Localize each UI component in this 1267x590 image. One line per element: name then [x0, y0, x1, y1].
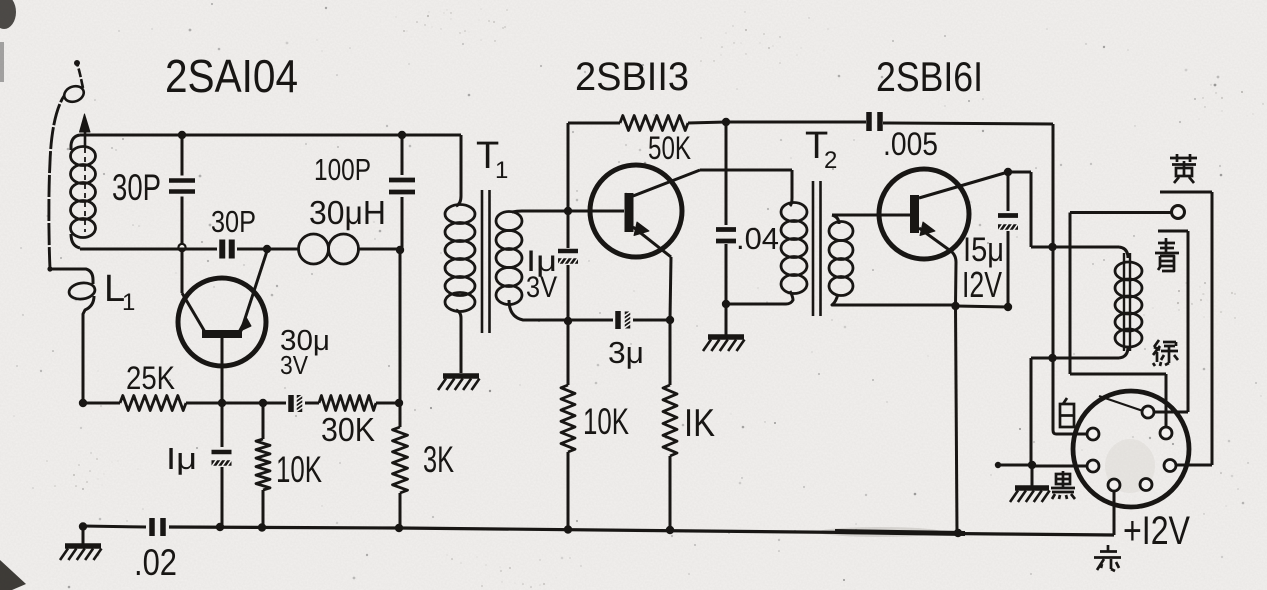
L1 tuning arrow: [84, 148, 86, 232]
capacitor 15u: [1007, 172, 1010, 211]
resistor 25K: [120, 396, 186, 411]
label kanji yellow: [1176, 154, 1179, 162]
svg-text:IK: IK: [684, 402, 715, 445]
T2 core: [812, 181, 815, 316]
node: [954, 529, 962, 537]
svg-text:.04: .04: [736, 221, 779, 256]
wire: yellow terminal: [1172, 206, 1185, 219]
node: [216, 523, 224, 531]
capacitor 1u: [221, 403, 224, 447]
svg-text:2SBII3: 2SBII3: [575, 55, 689, 99]
resistor 1K: [669, 320, 672, 385]
node: [395, 524, 403, 532]
transistor Q1: [178, 278, 266, 366]
capacitor .005: [866, 112, 872, 131]
node: [395, 399, 403, 407]
node: [398, 131, 406, 139]
node: [564, 317, 572, 325]
node: [258, 523, 266, 531]
antenna: [49, 96, 64, 269]
capacitor 30u electrolytic: [288, 395, 294, 412]
node: [722, 118, 730, 126]
svg-text:30K: 30K: [321, 411, 375, 448]
transistor Q3: [879, 169, 969, 259]
resistor 30K: [319, 396, 376, 411]
node: [1028, 461, 1036, 469]
node: [178, 131, 186, 139]
capacitor .04: [725, 122, 728, 225]
svg-text:3μ: 3μ: [608, 335, 644, 370]
label kanji white: [1063, 398, 1067, 404]
svg-text:25K: 25K: [126, 360, 175, 396]
wire: rail to oscillator: [80, 248, 217, 251]
capacitor .02: [149, 518, 155, 536]
T1 core: [481, 190, 484, 333]
svg-text:50K: 50K: [648, 130, 691, 166]
svg-text:.005: .005: [883, 126, 938, 162]
node: [666, 526, 674, 534]
label kanji blue: [1165, 238, 1168, 252]
node: [396, 246, 404, 254]
ground .04: [725, 304, 728, 335]
inductor 30uH: [299, 234, 329, 264]
svg-text:1: 1: [495, 157, 508, 184]
stub (black lead): [997, 464, 1031, 467]
node: [79, 399, 87, 407]
node: [259, 399, 267, 407]
node: [1004, 168, 1012, 176]
label kanji black: [1056, 474, 1070, 484]
capacitor 3u: [615, 311, 621, 329]
svg-text:3V: 3V: [280, 350, 309, 380]
antenna coupling loop wire: [50, 269, 93, 284]
wire: bias rail: [83, 402, 120, 405]
pin nc: [1140, 479, 1152, 491]
capacitor 100P: [401, 135, 404, 175]
pin (yellow): [1164, 460, 1176, 472]
pin (black): [1087, 460, 1099, 472]
ground (main): [82, 526, 85, 545]
svg-text:30P: 30P: [112, 167, 161, 208]
svg-text:30μH: 30μH: [309, 194, 386, 231]
ground (black): [1031, 465, 1034, 486]
transformer T1 secondary: [496, 212, 522, 231]
resistor 50K: [620, 116, 688, 131]
wire: blue lead: [1158, 230, 1188, 233]
wire: yellow lead: [1160, 191, 1212, 194]
resistor 10K (Q2): [567, 321, 570, 385]
resistor 10K: [262, 403, 265, 439]
node: [79, 522, 87, 530]
svg-text:2SBI6I: 2SBI6I: [876, 53, 983, 100]
pin (+line): [1087, 428, 1099, 440]
wire: collector to coil top: [1008, 171, 1031, 174]
wire: top rail right: [726, 121, 866, 124]
capacitor 30P (series): [219, 240, 225, 259]
svg-text:+I2V: +I2V: [1123, 509, 1190, 553]
transformer T2 secondary: [832, 215, 839, 224]
node: [263, 245, 271, 253]
node: [1048, 354, 1056, 362]
svg-text:2: 2: [824, 147, 837, 174]
node: [722, 300, 730, 308]
wire: top rail: [80, 134, 461, 137]
coil L1: [71, 135, 80, 150]
pin (green): [1160, 427, 1172, 439]
wire: +12V: [1113, 491, 1116, 535]
label kanji red: [1107, 545, 1110, 552]
capacitor 30P (left): [181, 135, 184, 176]
node: [951, 302, 959, 310]
node: [564, 525, 572, 533]
svg-text:1: 1: [122, 289, 135, 316]
pin +12V: [1108, 479, 1120, 491]
svg-text:10K: 10K: [583, 401, 629, 442]
wire: coil bottom / ground branch: [1031, 357, 1119, 360]
node: [1048, 243, 1056, 251]
svg-text:2SAI04: 2SAI04: [165, 50, 298, 102]
pin (blue): [1142, 406, 1154, 418]
svg-text:I2V: I2V: [962, 264, 1002, 305]
svg-text:30P: 30P: [211, 204, 256, 239]
wire: ground rail: [83, 526, 146, 527]
transistor Q2: [590, 165, 682, 257]
label kanji green: [1154, 340, 1159, 347]
transformer T1 primary: [402, 134, 461, 137]
svg-text:10K: 10K: [276, 449, 322, 490]
wire: main +line down: [1052, 124, 1055, 430]
svg-text:Iμ: Iμ: [166, 441, 197, 476]
transformer T2 primary: [790, 170, 792, 206]
node (open): [178, 244, 185, 251]
connector plug: [1073, 391, 1189, 507]
node: [218, 399, 226, 407]
capacitor 1u 3V: [567, 211, 570, 248]
node: [1004, 303, 1012, 311]
svg-text:3K: 3K: [423, 439, 454, 480]
ground T1: [443, 373, 479, 379]
choke coil: [1119, 247, 1128, 258]
svg-text:100P: 100P: [314, 152, 371, 187]
svg-text:.02: .02: [134, 542, 177, 583]
wire: Q2 top rail: [567, 123, 570, 211]
node: [564, 207, 572, 215]
svg-text:3V: 3V: [526, 271, 557, 304]
node: [666, 316, 674, 324]
resistor 3K + 100P drop wire: [399, 250, 402, 427]
